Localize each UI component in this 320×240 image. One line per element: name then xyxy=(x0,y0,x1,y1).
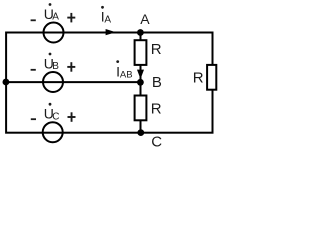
node C junction dot xyxy=(137,129,144,136)
label minus (U_B) xyxy=(31,69,36,71)
svg-text:A: A xyxy=(140,11,150,27)
svg-text:A: A xyxy=(104,15,111,26)
label minus (U_A) xyxy=(31,19,36,21)
svg-text:R: R xyxy=(151,101,162,118)
svg-text:C: C xyxy=(52,111,59,122)
svg-text:A: A xyxy=(52,12,59,23)
dot over U_C xyxy=(49,103,52,106)
label minus (U_C) xyxy=(31,118,36,120)
label plus (U_C) xyxy=(68,116,76,118)
dot over U_B xyxy=(49,53,52,56)
svg-text:B: B xyxy=(52,61,59,72)
resistor R2 (B-C) xyxy=(135,96,147,121)
label plus (U_A) xyxy=(67,17,75,19)
arrow current I_AB xyxy=(137,70,144,79)
dot over I_A xyxy=(101,6,104,9)
svg-text:AB: AB xyxy=(120,69,133,80)
wire outer loop rectangle xyxy=(6,33,212,133)
node B junction dot xyxy=(137,79,144,86)
dot over I_AB xyxy=(116,60,119,63)
svg-text:C: C xyxy=(151,134,162,151)
svg-text:R: R xyxy=(151,41,162,58)
node A junction dot xyxy=(137,29,144,36)
source U_A circle xyxy=(44,23,64,43)
svg-text:R: R xyxy=(193,70,204,87)
wire middle phase B xyxy=(6,81,140,83)
arrow current I_A xyxy=(106,29,116,35)
svg-text:B: B xyxy=(152,74,162,91)
resistor R3 (right branch) xyxy=(207,65,216,90)
source U_C circle xyxy=(43,122,63,142)
label plus (U_B) xyxy=(67,66,75,68)
wire vertical A-B-C xyxy=(140,33,142,133)
dot over U_A xyxy=(49,3,52,6)
left neutral junction dot xyxy=(3,79,10,86)
resistor R1 (A-B) xyxy=(135,40,147,65)
source U_B circle xyxy=(43,72,63,92)
